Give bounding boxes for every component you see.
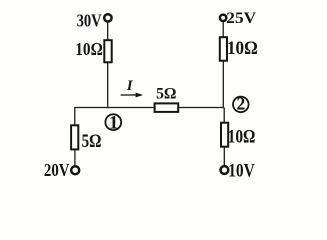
svg-text:2: 2 bbox=[237, 93, 246, 113]
svg-text:20V: 20V bbox=[44, 160, 70, 180]
svg-text:I: I bbox=[126, 78, 134, 94]
svg-text:25V: 25V bbox=[226, 10, 257, 27]
svg-text:1: 1 bbox=[109, 113, 119, 134]
svg-text:30V: 30V bbox=[77, 11, 102, 31]
svg-text:10Ω: 10Ω bbox=[228, 127, 256, 148]
svg-text:10Ω: 10Ω bbox=[227, 38, 258, 59]
svg-text:10Ω: 10Ω bbox=[75, 39, 103, 59]
svg-text:5Ω: 5Ω bbox=[156, 86, 176, 103]
svg-text:10V: 10V bbox=[228, 161, 255, 182]
svg-text:5Ω: 5Ω bbox=[82, 131, 102, 152]
